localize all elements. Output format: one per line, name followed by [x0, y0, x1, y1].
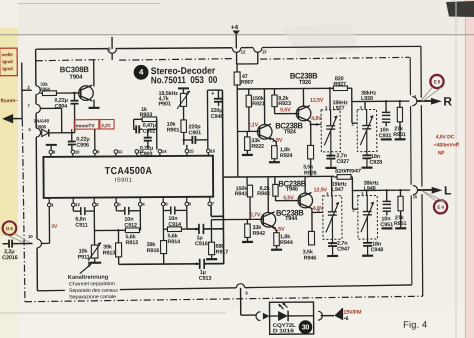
svg-text:D 1016: D 1016: [273, 328, 294, 334]
svg-text:•6: •6: [344, 316, 349, 322]
svg-text:D906: D906: [36, 124, 47, 129]
svg-text:D 6: D 6: [6, 226, 13, 231]
svg-text:C928: C928: [369, 160, 382, 166]
svg-text:Channel separation: Channel separation: [69, 281, 115, 287]
svg-text:C916: C916: [195, 241, 208, 247]
svg-text:C948: C948: [371, 247, 384, 253]
svg-text:R917: R917: [216, 249, 229, 255]
svg-text:4,5V DC: 4,5V DC: [436, 134, 455, 140]
svg-text:NF: NF: [438, 150, 445, 156]
svg-text:C2016: C2016: [2, 255, 18, 261]
svg-text:R924: R924: [280, 153, 294, 159]
svg-text:R942: R942: [252, 231, 265, 237]
svg-text:L948: L948: [364, 186, 376, 192]
svg-text:C913: C913: [199, 276, 212, 282]
svg-text:R907: R907: [241, 80, 254, 86]
svg-text:T904: T904: [69, 75, 83, 81]
svg-text:C906: C906: [76, 143, 89, 149]
svg-text:R921: R921: [252, 101, 265, 107]
svg-text:T946: T946: [286, 187, 299, 193]
svg-text:R912: R912: [126, 240, 139, 246]
svg-text:R927: R927: [333, 82, 346, 88]
svg-text:820/R947: 820/R947: [335, 168, 362, 174]
svg-text:E 6: E 6: [434, 79, 441, 84]
svg-text:C901: C901: [189, 130, 202, 136]
svg-text:30: 30: [302, 324, 310, 331]
svg-text:Fig. 4: Fig. 4: [403, 320, 427, 330]
svg-text:R916: R916: [147, 248, 160, 254]
svg-text:L947: L947: [332, 187, 344, 193]
svg-text:BC308B: BC308B: [60, 65, 89, 74]
svg-text:C927: C927: [336, 159, 349, 165]
svg-text:1N4148: 1N4148: [34, 118, 50, 123]
svg-text:3V: 3V: [51, 224, 58, 230]
svg-text:R: R: [443, 94, 452, 108]
svg-text:12: 12: [241, 49, 246, 54]
svg-text:1,5V: 1,5V: [272, 138, 283, 144]
svg-text:R946: R946: [304, 255, 317, 261]
svg-text:L928: L928: [361, 96, 373, 102]
svg-text:TCA4500A: TCA4500A: [105, 166, 153, 177]
svg-text:10: 10: [75, 149, 80, 154]
svg-text:<400mV eff: <400mV eff: [434, 142, 459, 148]
svg-text:P901: P901: [159, 101, 171, 107]
svg-text:R913: R913: [103, 250, 116, 256]
svg-text:15V/FM: 15V/FM: [343, 310, 362, 316]
svg-text:Separatio des canaux: Separatio des canaux: [69, 288, 119, 294]
svg-text:2,7V: 2,7V: [250, 212, 261, 218]
svg-text:C911: C911: [75, 223, 87, 229]
svg-text:T924: T924: [284, 129, 297, 135]
svg-text:R914: R914: [168, 239, 182, 245]
svg-text:E 4: E 4: [437, 205, 444, 210]
svg-text:R931: R931: [393, 132, 406, 138]
svg-text:IS901: IS901: [115, 178, 133, 184]
svg-text:C946: C946: [211, 114, 224, 120]
svg-text:R923: R923: [278, 101, 291, 107]
svg-text:R922: R922: [251, 144, 264, 150]
svg-text:13: 13: [262, 49, 267, 54]
svg-text:+4: +4: [231, 24, 239, 31]
svg-text:L: L: [444, 183, 451, 197]
svg-text:15: 15: [189, 149, 194, 154]
svg-text:12,5V: 12,5V: [310, 98, 324, 104]
svg-text:Separazione canale: Separazione canale: [69, 294, 116, 300]
svg-text:R941: R941: [235, 191, 248, 197]
svg-text:monoTV: monoTV: [76, 123, 96, 129]
svg-text:R951: R951: [394, 221, 407, 227]
svg-text:12: 12: [75, 202, 80, 207]
svg-text:L927: L927: [333, 106, 345, 112]
svg-text:14: 14: [162, 149, 167, 154]
svg-text:welle: welle: [1, 52, 14, 58]
svg-text:2,1V: 2,1V: [248, 122, 259, 128]
svg-text:ffumm–: ffumm–: [0, 98, 18, 104]
svg-text:11: 11: [118, 149, 123, 154]
svg-text:P911: P911: [78, 255, 90, 261]
svg-text:No.75011 053 00: No.75011 053 00: [151, 75, 218, 86]
svg-text:5,5V: 5,5V: [280, 107, 291, 113]
svg-text:T926: T926: [299, 80, 312, 86]
svg-text:C947: C947: [337, 246, 350, 252]
svg-text:2,2V: 2,2V: [101, 123, 111, 129]
svg-text:T944: T944: [285, 216, 298, 222]
svg-text:Kanaltrennung: Kanaltrennung: [68, 275, 109, 281]
svg-text:16: 16: [210, 148, 215, 153]
svg-text:10: 10: [28, 234, 33, 239]
svg-text:R901: R901: [167, 127, 180, 133]
svg-text:13: 13: [139, 149, 144, 154]
svg-text:R944: R944: [280, 240, 294, 246]
svg-text:ignal: ignal: [2, 66, 12, 72]
svg-text:ignal: ignal: [2, 59, 12, 65]
